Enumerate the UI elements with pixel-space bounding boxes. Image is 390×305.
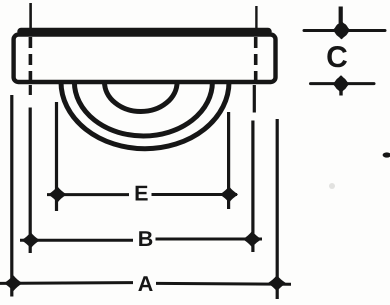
hidden line right	[254, 37, 258, 83]
dimension line A left segment	[0, 281, 133, 285]
extension line A left	[10, 95, 13, 297]
svg-text:B: B	[138, 227, 154, 251]
arc outer	[61, 82, 229, 149]
extension line A right	[276, 119, 279, 299]
svg-text:A: A	[138, 272, 154, 296]
extension line B right	[251, 121, 254, 253]
stray mark right edge	[383, 152, 390, 157]
arrowhead C bottom	[334, 76, 348, 92]
extension line B right upper dash	[253, 85, 256, 113]
arrowhead C top	[334, 22, 350, 38]
dimension C bottom line	[311, 82, 375, 85]
arrowhead A left	[5, 276, 21, 290]
dimension C top tail	[339, 7, 343, 25]
svg-text:C: C	[326, 41, 348, 74]
dimension line B left segment	[20, 239, 133, 242]
extension line E right	[227, 112, 230, 209]
extension line E left	[55, 102, 58, 211]
svg-text:E: E	[134, 182, 148, 206]
arrowhead B left	[23, 233, 39, 247]
centerline stub above left	[29, 3, 32, 28]
hidden line left	[29, 37, 33, 83]
dimension line E left segment	[47, 193, 129, 196]
dimension C top line	[304, 29, 385, 32]
arrowhead B right	[244, 232, 260, 246]
centerline stub above right	[255, 6, 257, 28]
dimension line E right segment	[152, 193, 238, 196]
arrowhead E left	[49, 188, 65, 202]
plate body outline	[14, 35, 276, 82]
dimension line A right segment	[156, 282, 291, 286]
arc middle	[74, 82, 212, 136]
arrowhead E right	[221, 188, 237, 202]
faint smudge	[329, 183, 335, 189]
arrowhead A right	[269, 276, 285, 290]
plate top thick edge	[21, 28, 268, 36]
extension line B left upper dash	[29, 85, 32, 95]
extension line B left	[29, 108, 32, 254]
arc inner	[105, 82, 178, 112]
dimension C bottom tail	[339, 88, 342, 96]
arrowhead C bottom blob	[335, 77, 347, 91]
arrowhead C top blob	[335, 23, 349, 37]
dimension line B right segment	[156, 238, 263, 241]
